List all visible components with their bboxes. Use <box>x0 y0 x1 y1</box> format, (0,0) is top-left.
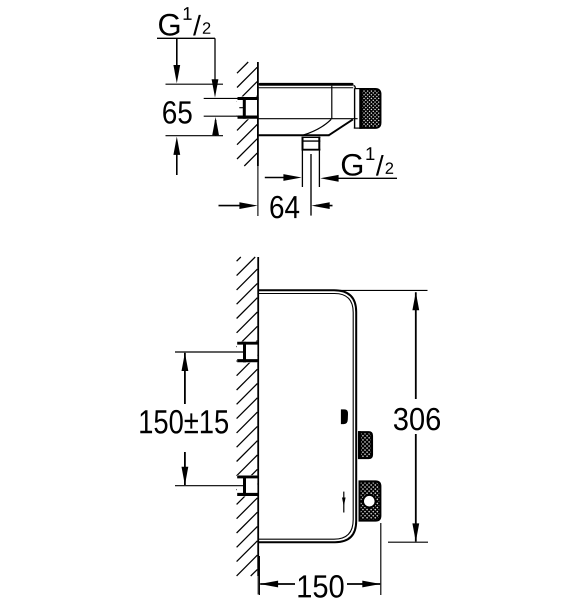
ext line lower tab <box>175 485 244 487</box>
inlet nipple white underlay <box>237 97 257 120</box>
label 150pm15 <box>140 410 152 433</box>
body internal vertical line <box>331 86 333 119</box>
wall hatch bottom view <box>237 257 258 576</box>
device outer outline <box>259 290 356 542</box>
body spout inner curve <box>304 119 332 135</box>
label G1/2 right <box>342 154 362 176</box>
outlet pipe <box>302 150 319 187</box>
body top thick bar <box>259 83 354 86</box>
ext line body top <box>166 83 224 85</box>
upper control knob <box>359 432 372 458</box>
G1/2 top leader underline <box>157 37 215 39</box>
inlet nipple left edge <box>243 97 246 119</box>
lower mount tab white underlay <box>237 475 257 496</box>
dim 150pm15 lower segment <box>184 452 186 485</box>
body top right step <box>354 86 356 89</box>
wall face line bottom view <box>257 257 259 576</box>
dim 306 lower segment <box>415 434 417 542</box>
body internal horizontal line <box>259 118 358 120</box>
dim 150 right segment <box>347 583 380 585</box>
pipe center line <box>310 154 312 216</box>
outlet nipple <box>302 137 321 151</box>
thermostat knob circle <box>363 495 376 508</box>
label 150 <box>298 575 311 597</box>
flow arrow symbol <box>342 492 346 513</box>
label 64 <box>270 196 283 219</box>
nipple dim lower stem <box>215 120 217 136</box>
upper mount tab <box>237 342 259 363</box>
arrowheads bottom view <box>182 353 189 371</box>
dim 65 upper stem <box>176 39 178 72</box>
lower mount tab <box>237 476 259 497</box>
dim 150 left segment <box>260 583 295 585</box>
label G1/2 top <box>159 14 179 36</box>
spout mark <box>341 409 348 424</box>
pipe dim left stem <box>265 177 292 179</box>
ext line device bottom <box>388 541 428 543</box>
inlet nipple top bar <box>238 97 259 100</box>
dim 150pm15 upper segment <box>184 353 186 404</box>
G1/2 right leader <box>325 177 397 179</box>
dim 306 upper segment <box>415 292 417 399</box>
knob left thick bar <box>360 88 363 129</box>
body right edge <box>354 88 356 128</box>
thermostat knob <box>360 482 381 521</box>
dim 65 lower stem <box>176 146 178 175</box>
wall face line top <box>257 62 259 166</box>
ext line upper tab <box>175 351 244 353</box>
ext line device top <box>340 289 428 291</box>
body flange line <box>259 87 354 89</box>
wall face extension down to 64 dim <box>257 166 259 216</box>
neck bottom line <box>354 127 360 129</box>
wall hatch top view <box>237 62 257 166</box>
neck top line <box>355 88 361 90</box>
body bottom thick line <box>259 134 330 136</box>
dim 64 right segment <box>316 205 333 207</box>
ext line 150 right <box>380 523 382 595</box>
ext line nipple bottom <box>204 115 246 117</box>
inlet nipple bottom bar <box>238 115 259 118</box>
inlet nipple center tick <box>239 107 243 109</box>
dim 64 left segment <box>219 205 248 207</box>
label 65 <box>163 101 176 124</box>
ext line body bottom <box>166 135 224 137</box>
body bottom chamfer <box>329 119 353 135</box>
arrowheads top view <box>173 65 180 83</box>
G1/2 top leader vertical <box>214 38 216 88</box>
knurled knob top view <box>360 89 380 128</box>
wall face extension to 150 dim <box>257 576 259 595</box>
ext line 150 left <box>258 556 260 595</box>
device inner outline <box>259 294 353 540</box>
ext line nipple top <box>204 97 244 99</box>
label 306 <box>394 408 408 431</box>
upper mount tab white underlay <box>237 342 257 363</box>
